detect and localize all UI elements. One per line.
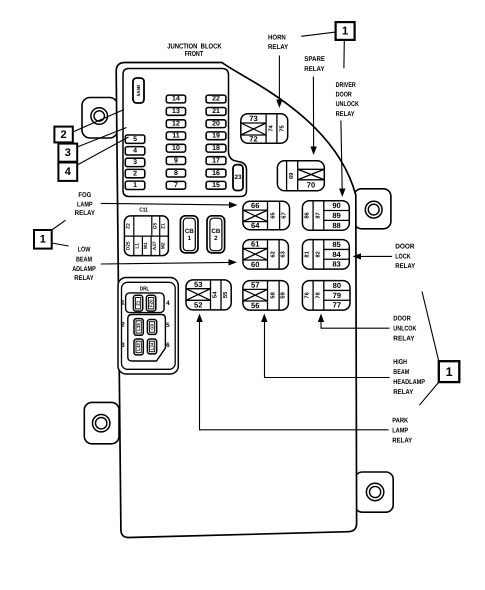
svg-text:69: 69 xyxy=(288,172,295,179)
svg-text:1: 1 xyxy=(342,25,349,37)
right-upper mounting tab xyxy=(354,189,391,229)
svg-text:11: 11 xyxy=(172,133,180,140)
svg-text:13: 13 xyxy=(172,108,180,115)
svg-text:20: 20 xyxy=(212,120,220,127)
callout 1 (left) xyxy=(34,230,52,249)
callout 1 (top) xyxy=(336,22,355,40)
relay 66/64 xyxy=(243,201,290,230)
relay 85/84/83 xyxy=(302,240,349,270)
svg-text:3: 3 xyxy=(65,147,71,159)
svg-text:55: 55 xyxy=(223,291,229,298)
fuse 5 xyxy=(125,135,145,143)
callout 1 (right) xyxy=(439,361,460,382)
DRL cell Z1 xyxy=(133,295,142,311)
svg-text:DOOR: DOOR xyxy=(393,315,411,322)
svg-text:D25: D25 xyxy=(126,241,132,250)
svg-text:78: 78 xyxy=(315,292,321,298)
svg-text:HIGH: HIGH xyxy=(393,359,407,366)
svg-text:ADLAMP: ADLAMP xyxy=(72,266,96,273)
svg-text:4: 4 xyxy=(166,300,170,307)
fuse 15 xyxy=(206,181,226,189)
svg-text:7: 7 xyxy=(174,182,178,189)
svg-text:2: 2 xyxy=(61,129,67,141)
svg-text:RELAY: RELAY xyxy=(75,210,96,217)
fuse 12 xyxy=(166,120,185,128)
svg-text:70: 70 xyxy=(307,181,315,190)
relay 73 (horn) xyxy=(241,114,288,144)
svg-text:14: 14 xyxy=(172,96,180,103)
relay 61/60 xyxy=(243,240,289,270)
svg-text:DOOR: DOOR xyxy=(336,92,352,99)
svg-text:1: 1 xyxy=(133,182,137,189)
svg-text:5: 5 xyxy=(133,136,137,143)
DRL cell G9 xyxy=(147,320,156,335)
fuse 22 xyxy=(206,95,226,103)
svg-text:SPARE: SPARE xyxy=(304,56,325,63)
svg-text:10: 10 xyxy=(172,145,180,152)
fuse 13 xyxy=(166,108,185,116)
svg-text:67: 67 xyxy=(281,212,288,218)
svg-text:8: 8 xyxy=(174,170,178,177)
svg-text:LOW: LOW xyxy=(78,247,91,254)
top-left tab ring xyxy=(91,108,108,125)
svg-text:80: 80 xyxy=(333,281,341,290)
fuse 2 xyxy=(125,169,145,177)
svg-text:77: 77 xyxy=(333,301,341,310)
fuse 21 xyxy=(206,108,226,116)
svg-text:UNLOCK: UNLOCK xyxy=(336,101,359,108)
wire spare relay arrow xyxy=(312,77,314,148)
wire callout1-right lower leader xyxy=(419,382,438,405)
DRL cell F20 xyxy=(146,295,155,311)
fuse 19 xyxy=(206,132,226,140)
svg-text:54: 54 xyxy=(213,291,219,298)
wire callout1-left lower leader xyxy=(52,243,69,246)
fuse 23 xyxy=(233,165,243,191)
svg-text:5: 5 xyxy=(166,322,170,329)
svg-text:LAMP: LAMP xyxy=(392,427,408,434)
relay 57/56 xyxy=(243,281,289,311)
svg-text:60: 60 xyxy=(251,260,259,269)
svg-text:23: 23 xyxy=(234,174,242,181)
fuse 14 xyxy=(166,95,185,103)
svg-text:HORN: HORN xyxy=(268,35,286,42)
svg-text:12: 12 xyxy=(172,120,180,127)
svg-text:58: 58 xyxy=(269,291,276,298)
wire park lamp leader xyxy=(200,429,389,431)
DRL bottom sub-box xyxy=(128,315,166,362)
svg-text:52: 52 xyxy=(194,301,202,310)
bottom-left tab ring xyxy=(93,415,110,432)
svg-text:17: 17 xyxy=(212,157,220,164)
svg-text:L34: L34 xyxy=(150,342,155,350)
svg-text:RELAY: RELAY xyxy=(392,437,412,444)
svg-text:75: 75 xyxy=(279,124,285,131)
wire door lock arrow xyxy=(361,255,392,257)
svg-text:15: 15 xyxy=(212,182,220,189)
svg-text:66: 66 xyxy=(251,201,259,210)
svg-text:2: 2 xyxy=(121,322,125,329)
bottom-right tab ring xyxy=(366,483,383,500)
junction block body outline xyxy=(116,63,356,538)
svg-text:5A5B: 5A5B xyxy=(136,84,141,96)
callout 3 xyxy=(58,144,77,162)
svg-text:81: 81 xyxy=(304,250,311,257)
relay 90/89/88 xyxy=(302,201,349,231)
svg-text:4: 4 xyxy=(133,148,137,155)
svg-text:DRIVER: DRIVER xyxy=(336,82,356,89)
svg-text:RELAY: RELAY xyxy=(74,275,94,282)
wire callout2 leader xyxy=(73,110,124,133)
svg-text:83: 83 xyxy=(332,260,340,269)
svg-text:LAMP: LAMP xyxy=(77,201,93,208)
svg-text:53: 53 xyxy=(194,280,202,289)
svg-text:63: 63 xyxy=(280,250,287,257)
relay 69/70 (spare) xyxy=(277,161,324,191)
svg-text:19: 19 xyxy=(212,133,220,140)
circuit breaker CB1 xyxy=(180,216,198,253)
DRL cell L34 xyxy=(147,339,156,354)
wire callout1-left upper leader xyxy=(52,220,66,230)
svg-text:CB: CB xyxy=(185,228,194,235)
wire high beam leader xyxy=(265,377,390,379)
svg-text:G5: G5 xyxy=(152,222,158,229)
fuse 17 xyxy=(206,157,226,165)
fuse 8 xyxy=(166,169,185,177)
svg-text:1: 1 xyxy=(121,300,125,307)
wire callout1-top down leader xyxy=(343,40,345,68)
svg-text:21: 21 xyxy=(212,108,220,115)
svg-text:L1: L1 xyxy=(135,243,141,249)
fuse 20 xyxy=(206,120,226,128)
svg-text:65: 65 xyxy=(270,212,277,219)
wire driver door unlock arrow xyxy=(341,121,342,190)
svg-text:88: 88 xyxy=(332,221,340,230)
svg-text:RELAY: RELAY xyxy=(393,335,415,342)
fuse 18 xyxy=(206,144,226,152)
svg-text:84: 84 xyxy=(332,250,341,259)
top-left mounting tab xyxy=(82,98,118,139)
svg-text:56: 56 xyxy=(251,301,259,310)
svg-text:89: 89 xyxy=(332,211,340,220)
wire callout4 leader xyxy=(77,137,128,165)
svg-text:61: 61 xyxy=(251,240,260,249)
wire callout1-right upper leader xyxy=(422,292,439,362)
svg-text:2: 2 xyxy=(214,235,218,242)
svg-text:4: 4 xyxy=(65,166,72,178)
fuse 3 xyxy=(125,158,145,166)
svg-text:PARK: PARK xyxy=(392,417,408,424)
wire low beam arrow xyxy=(101,262,230,264)
DRL cell L43 xyxy=(134,339,143,355)
svg-text:76: 76 xyxy=(304,291,311,298)
svg-text:62: 62 xyxy=(269,251,276,257)
fuse 1 xyxy=(125,181,145,189)
svg-text:16: 16 xyxy=(212,170,220,177)
svg-text:1: 1 xyxy=(446,365,453,379)
svg-text:L35: L35 xyxy=(136,323,141,331)
svg-text:FRONT: FRONT xyxy=(185,49,204,58)
svg-text:BEAM: BEAM xyxy=(393,369,409,376)
callout 2 xyxy=(54,127,72,143)
svg-text:57: 57 xyxy=(251,281,259,290)
wire horn relay arrow xyxy=(278,56,280,101)
svg-text:73: 73 xyxy=(249,114,257,123)
svg-text:F20: F20 xyxy=(149,299,154,307)
svg-text:A37: A37 xyxy=(152,241,158,250)
svg-text:LOCK: LOCK xyxy=(395,253,411,260)
svg-text:90: 90 xyxy=(332,201,340,210)
fuse 16 xyxy=(206,169,226,177)
connector C11 xyxy=(124,216,168,256)
wire callout3 leader xyxy=(77,128,126,148)
wire door unlock leader xyxy=(321,327,390,329)
wire fog lamp arrow xyxy=(101,203,231,205)
fuse 9 xyxy=(166,157,185,165)
svg-text:22: 22 xyxy=(212,96,220,103)
callout 4 xyxy=(58,163,77,181)
svg-text:82: 82 xyxy=(315,251,321,257)
bottom-right mounting tab xyxy=(355,472,393,512)
svg-text:RELAY: RELAY xyxy=(304,66,325,73)
svg-text:DRL: DRL xyxy=(140,286,150,292)
svg-text:C11: C11 xyxy=(139,206,148,213)
svg-text:2: 2 xyxy=(133,170,137,177)
svg-text:59: 59 xyxy=(280,291,287,298)
DRL cell L35 xyxy=(134,319,143,336)
svg-text:74: 74 xyxy=(269,124,275,131)
svg-text:M2: M2 xyxy=(161,242,167,249)
svg-text:Z2: Z2 xyxy=(126,223,132,229)
svg-text:87: 87 xyxy=(315,212,321,218)
svg-text:RELAY: RELAY xyxy=(336,111,355,118)
svg-text:G9: G9 xyxy=(150,323,155,329)
svg-text:UNLCOK: UNLCOK xyxy=(393,325,416,332)
relay 53/52 xyxy=(186,280,231,310)
svg-text:Z1: Z1 xyxy=(136,300,141,306)
wire callout1-top left leader xyxy=(301,32,335,36)
svg-text:1: 1 xyxy=(40,234,46,246)
svg-text:Z1: Z1 xyxy=(161,223,167,229)
right-upper tab ring xyxy=(365,201,382,218)
circuit breaker CB2 xyxy=(207,216,225,253)
svg-text:RELAY: RELAY xyxy=(395,263,415,270)
svg-text:DOOR: DOOR xyxy=(395,243,414,250)
svg-text:85: 85 xyxy=(332,240,341,249)
svg-text:72: 72 xyxy=(249,135,257,144)
svg-text:3: 3 xyxy=(121,342,125,349)
svg-text:3: 3 xyxy=(133,159,137,166)
svg-text:FOG: FOG xyxy=(78,192,91,199)
svg-text:79: 79 xyxy=(333,291,341,300)
fuse 7 xyxy=(166,181,185,189)
svg-text:BEAM: BEAM xyxy=(76,256,92,263)
svg-text:HEADLAMP: HEADLAMP xyxy=(393,379,425,386)
fuse 10 xyxy=(166,144,185,152)
bottom-left mounting tab xyxy=(84,402,119,443)
fuse panel outline xyxy=(123,69,247,197)
svg-text:64: 64 xyxy=(251,221,260,230)
svg-text:RELAY: RELAY xyxy=(393,389,413,396)
fuse 4 xyxy=(125,147,145,155)
DRL top sub-box xyxy=(126,293,165,313)
relay 80/79/77 xyxy=(302,281,350,311)
svg-text:1: 1 xyxy=(188,235,192,242)
svg-text:86: 86 xyxy=(304,211,311,218)
svg-text:L43: L43 xyxy=(136,343,141,351)
fuse 5A5B xyxy=(133,78,144,103)
svg-text:M1: M1 xyxy=(143,242,149,249)
svg-text:CB: CB xyxy=(211,228,220,235)
svg-text:9: 9 xyxy=(174,157,178,164)
fuse 11 xyxy=(166,132,185,140)
svg-text:RELAY: RELAY xyxy=(268,44,289,51)
svg-text:18: 18 xyxy=(212,145,220,152)
svg-text:6: 6 xyxy=(166,342,170,349)
DRL connector outer xyxy=(118,278,178,375)
